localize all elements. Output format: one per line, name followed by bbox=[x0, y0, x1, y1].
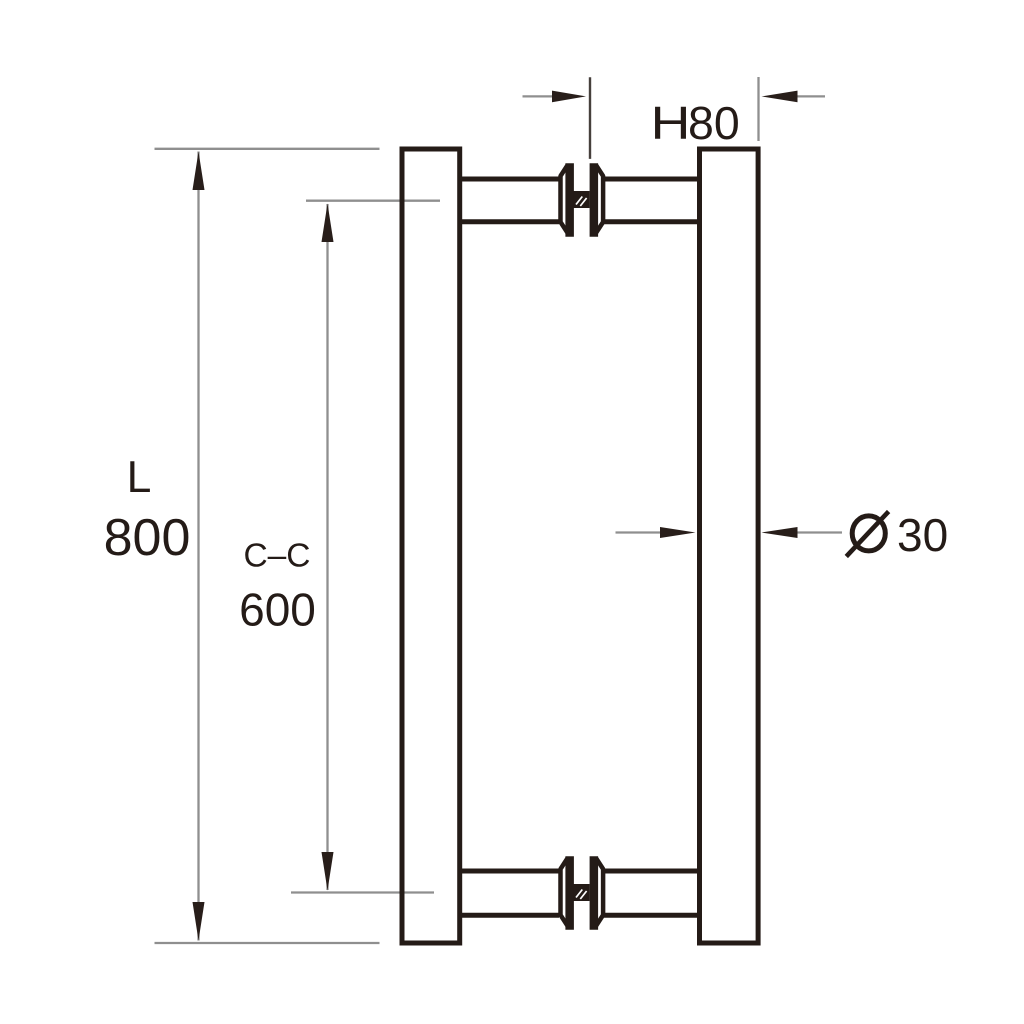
svg-text:600: 600 bbox=[239, 584, 316, 636]
svg-text:H: H bbox=[651, 97, 691, 149]
svg-text:C–C: C–C bbox=[243, 538, 310, 575]
svg-text:L: L bbox=[127, 453, 152, 502]
svg-text:30: 30 bbox=[897, 509, 948, 561]
svg-text:80: 80 bbox=[688, 97, 740, 149]
svg-text:800: 800 bbox=[104, 509, 191, 567]
